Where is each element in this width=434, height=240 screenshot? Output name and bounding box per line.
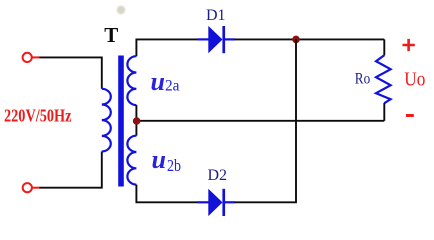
- wire (center tap stub): [135, 105, 137, 136]
- svg-text:D2: D2: [208, 167, 228, 184]
- wire (right branch down from junction): [295, 39, 297, 202]
- transformer secondary winding u2b: [127, 136, 136, 185]
- svg-text:2a: 2a: [165, 77, 180, 94]
- wire (red stub from bottom terminal): [32, 187, 40, 189]
- svg-text:Uo: Uo: [404, 69, 425, 91]
- transformer secondary winding u2a: [127, 56, 136, 105]
- svg-text:D1: D1: [206, 7, 226, 24]
- terminal (input bottom): [23, 183, 32, 192]
- svg-text:Ro: Ro: [355, 71, 370, 88]
- wire (secondary bottom lead): [136, 185, 198, 203]
- wire (center tap rail): [136, 120, 384, 122]
- svg-text:T: T: [104, 23, 118, 47]
- resistor Ro: [376, 55, 391, 103]
- label - (output minus): [406, 114, 414, 117]
- wire (red stub from top terminal): [32, 56, 40, 58]
- svg-text:2b: 2b: [167, 156, 181, 175]
- transformer core: [118, 56, 124, 187]
- wire (top rail D1 to resistor): [235, 38, 385, 40]
- terminal (input top): [23, 53, 32, 62]
- svg-text:u: u: [152, 145, 166, 174]
- wire (resistor top lead): [383, 39, 385, 55]
- label + (output plus): [403, 39, 415, 51]
- wire (top primary lead): [40, 57, 102, 88]
- junction dot (top): [292, 36, 300, 44]
- diode D1: [197, 26, 235, 53]
- wire (secondary top lead): [136, 39, 198, 56]
- wire (bottom primary lead): [40, 152, 102, 188]
- svg-text:220V/50Hz: 220V/50Hz: [4, 106, 72, 126]
- junction dot (center tap): [133, 117, 141, 125]
- wire (bottom rail D2 to right branch): [235, 201, 297, 203]
- transformer T primary winding: [102, 89, 111, 152]
- svg-text:u: u: [151, 67, 165, 96]
- diode D2: [197, 189, 235, 216]
- grey dot marker: [117, 6, 125, 14]
- wire (resistor bottom lead): [383, 103, 385, 121]
